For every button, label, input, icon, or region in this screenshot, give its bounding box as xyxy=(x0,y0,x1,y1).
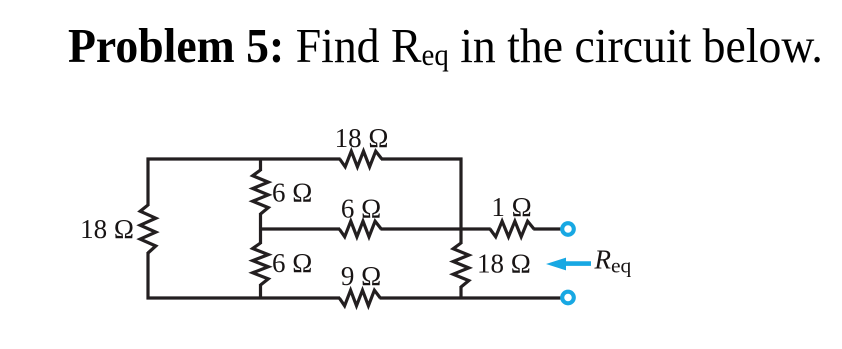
svg-text:9 Ω: 9 Ω xyxy=(341,261,381,291)
svg-text:6 Ω: 6 Ω xyxy=(272,178,312,208)
wire bottom rail right segment xyxy=(380,296,561,299)
wire middle branch top xyxy=(259,158,262,172)
resistor R_left 18ohm vertical xyxy=(140,205,156,253)
wire middle branch center xyxy=(259,213,262,244)
terminal A top open circle xyxy=(562,223,574,235)
wire left vertical top xyxy=(146,158,149,207)
svg-text:18 Ω: 18 Ω xyxy=(80,214,134,244)
terminal B bottom open circle xyxy=(562,292,574,304)
wire bottom rail left segment xyxy=(147,296,341,299)
wire right vertical upper xyxy=(459,158,462,245)
wire middle rail segment 1 xyxy=(259,227,340,230)
svg-text:Req: Req xyxy=(594,245,632,278)
wire right vertical lower xyxy=(459,286,462,300)
wire middle branch bottom xyxy=(259,284,262,300)
wire middle rail segment 2 xyxy=(381,227,491,230)
svg-text:18 Ω: 18 Ω xyxy=(335,123,389,153)
resistor R_top 18ohm horizontal xyxy=(340,151,382,167)
resistor R6c 6ohm horizontal xyxy=(339,221,381,237)
Req arrow xyxy=(546,258,591,271)
resistor R9 9ohm horizontal xyxy=(339,290,380,306)
resistor R1 1ohm horizontal xyxy=(490,221,534,237)
resistor R6b 6ohm vertical lower xyxy=(253,243,269,285)
resistor R6a 6ohm vertical upper xyxy=(253,170,269,214)
wire middle rail segment 3 xyxy=(533,227,560,230)
svg-text:6 Ω: 6 Ω xyxy=(341,194,381,224)
wire left vertical bottom xyxy=(146,252,149,300)
title text xyxy=(68,21,823,70)
svg-text:6 Ω: 6 Ω xyxy=(272,248,312,278)
wire top rail right segment xyxy=(381,157,463,160)
svg-text:1 Ω: 1 Ω xyxy=(491,192,531,222)
wire top rail left segment xyxy=(147,157,341,160)
svg-text:18 Ω: 18 Ω xyxy=(477,248,531,278)
resistor R18r 18ohm vertical right xyxy=(453,243,469,287)
